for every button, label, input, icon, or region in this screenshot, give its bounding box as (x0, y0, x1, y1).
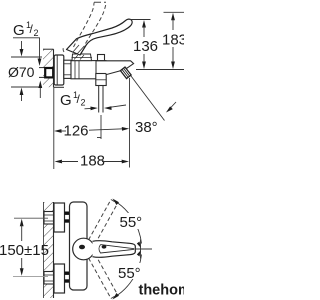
dimension 188 (55, 153, 130, 170)
lever neck section marks (73, 45, 85, 54)
inlet pipe through wall (39, 68, 53, 78)
dashed lever position upper (89, 200, 118, 245)
svg-text:2: 2 (81, 98, 86, 108)
top escutcheon block (54, 203, 65, 232)
55° text top (118, 213, 147, 229)
hex nut (64, 60, 71, 78)
right extension line (spout tip) (129, 78, 131, 168)
leader bracket from G1/2 to inlet pipe (13, 38, 40, 59)
bottom 55° arc (114, 255, 142, 298)
svg-text:150±15: 150±15 (0, 242, 49, 259)
lever (top view, pointing right) (93, 241, 136, 258)
faucet body (side view) (71, 61, 97, 79)
cartridge dome on body (72, 54, 93, 61)
dimension 150±15 (0, 219, 49, 276)
body plate (top view) (70, 202, 88, 290)
bottom union hex (behind wall) (44, 272, 54, 285)
cartridge circle (73, 238, 95, 260)
wall (top view) hatched strip (44, 202, 54, 298)
label G 1/2 (second) (60, 90, 86, 109)
spout (wedge to the right) (96, 61, 134, 75)
dimension 183 (162, 13, 187, 69)
extension tick for 183 (raised lever top) (164, 11, 185, 13)
top union hex (behind wall) (44, 212, 54, 225)
spout base / right body section (96, 61, 106, 86)
dimension 136 (133, 20, 158, 69)
lever handle (solid, horizontal position) (67, 19, 133, 55)
wall (side view) hatched strip (43, 49, 64, 87)
svg-text:136: 136 (133, 38, 158, 55)
top connector bars (65, 213, 71, 221)
shower outlet pipe (99, 86, 103, 113)
dashed lever position lower (89, 254, 118, 299)
dimension 126 (54, 123, 129, 140)
dimension Ø70 top arrow (21, 41, 23, 51)
extension line from lever tip (top of 136) (130, 19, 151, 21)
bottom escutcheon block (54, 264, 65, 293)
svg-text:G: G (60, 92, 72, 109)
axis tick (140, 240, 142, 259)
lever inner wedge (99, 245, 134, 253)
55° text bottom (117, 263, 146, 279)
dimension Ø70 ticks (11, 56, 42, 58)
lever dark dot (102, 245, 107, 249)
bottom extension line under spout (136, 69, 184, 71)
dimension Ø70 bottom arrow (21, 93, 23, 101)
svg-text:Ø70: Ø70 (8, 64, 35, 80)
tick for 150±15 bottom (union axis) (13, 276, 48, 278)
svg-text:G: G (13, 22, 25, 39)
svg-text:188: 188 (80, 153, 105, 170)
pipe callout arrows (85, 107, 92, 109)
38° leader line from aerator (131, 76, 165, 121)
svg-text:55°: 55° (118, 265, 141, 282)
lever handle (dashed, raised position) (63, 2, 106, 52)
dark dot in circle (79, 245, 85, 250)
svg-text:55°: 55° (120, 214, 143, 231)
lever axis line (136, 248, 153, 250)
svg-text:38°: 38° (135, 119, 158, 136)
svg-text:thehome: thehome (139, 283, 185, 299)
svg-text:2: 2 (34, 28, 39, 38)
escutcheon flange (side view) (54, 55, 64, 85)
svg-text:126: 126 (64, 123, 89, 140)
wall face extension line down to dimensions (53, 87, 55, 169)
bottom connector bars (65, 273, 71, 281)
pipe axis extension (100, 115, 102, 139)
tick for 150±15 top (union axis) (14, 217, 48, 219)
aerator (angled outlet at 38°) (120, 67, 131, 78)
arrow pointing up at inlet pipe underside (39, 86, 41, 98)
38° pointer arrow (169, 102, 176, 110)
label G 1/2 (top) (13, 20, 39, 39)
top 55° arc (114, 201, 142, 244)
svg-text:183: 183 (162, 32, 184, 49)
diverter knob on body (98, 55, 105, 62)
